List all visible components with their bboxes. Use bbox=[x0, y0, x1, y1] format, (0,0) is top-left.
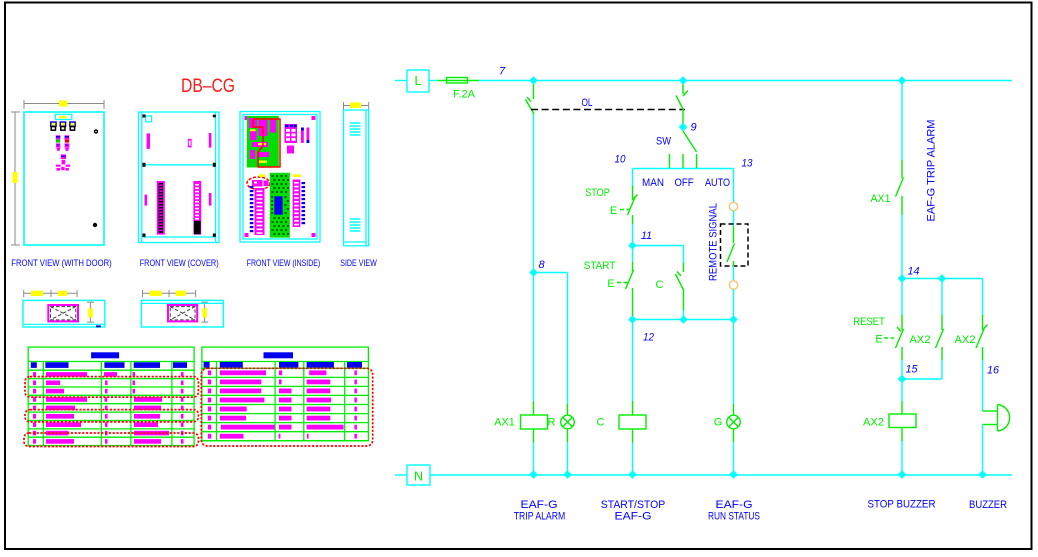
svg-text:9: 9 bbox=[690, 122, 696, 134]
svg-text:FRONT VIEW (INSIDE): FRONT VIEW (INSIDE) bbox=[247, 258, 321, 269]
svg-text:STOP BUZZER: STOP BUZZER bbox=[868, 499, 936, 511]
svg-text:FRONT VIEW (COVER): FRONT VIEW (COVER) bbox=[140, 258, 219, 269]
svg-text:EAF-G: EAF-G bbox=[521, 499, 558, 511]
svg-text:N: N bbox=[414, 470, 423, 484]
svg-text:12: 12 bbox=[643, 332, 654, 344]
svg-text:START/STOP: START/STOP bbox=[601, 499, 666, 511]
svg-text:E: E bbox=[610, 205, 617, 217]
svg-text:AX1: AX1 bbox=[871, 193, 891, 205]
svg-text:F.2A: F.2A bbox=[453, 89, 476, 101]
svg-text:AX2: AX2 bbox=[910, 334, 931, 346]
svg-text:EAF-G: EAF-G bbox=[716, 499, 753, 511]
svg-text:14: 14 bbox=[908, 266, 920, 278]
svg-text:EAF-G: EAF-G bbox=[615, 511, 652, 523]
svg-text:SW: SW bbox=[656, 136, 672, 148]
svg-text:MAN: MAN bbox=[642, 177, 664, 189]
svg-text:RUN STATUS: RUN STATUS bbox=[708, 511, 760, 523]
svg-text:STOP: STOP bbox=[585, 187, 610, 199]
svg-text:L: L bbox=[415, 74, 422, 88]
svg-text:E: E bbox=[875, 334, 882, 346]
svg-text:REMOTE SIGNAL: REMOTE SIGNAL bbox=[708, 203, 720, 281]
svg-text:AX1: AX1 bbox=[494, 417, 515, 429]
svg-text:13: 13 bbox=[742, 158, 754, 170]
svg-text:EAF-G TRIP ALARM: EAF-G TRIP ALARM bbox=[926, 120, 938, 222]
svg-text:11: 11 bbox=[641, 230, 652, 242]
svg-text:7: 7 bbox=[499, 66, 506, 78]
svg-text:RESET: RESET bbox=[853, 316, 885, 328]
svg-text:C: C bbox=[597, 417, 605, 429]
svg-text:FRONT VIEW (WITH DOOR): FRONT VIEW (WITH DOOR) bbox=[11, 258, 112, 269]
svg-text:10: 10 bbox=[615, 154, 627, 166]
svg-text:E: E bbox=[607, 278, 614, 290]
svg-text:R: R bbox=[548, 417, 556, 429]
svg-text:AUTO: AUTO bbox=[705, 177, 730, 189]
svg-text:C: C bbox=[656, 279, 664, 291]
svg-text:AX2: AX2 bbox=[863, 417, 884, 429]
svg-text:BUZZER: BUZZER bbox=[969, 499, 1007, 511]
svg-text:DB–CG: DB–CG bbox=[181, 76, 235, 97]
svg-text:G: G bbox=[714, 417, 723, 429]
svg-text:15: 15 bbox=[906, 364, 919, 376]
svg-text:TRIP ALARM: TRIP ALARM bbox=[514, 511, 566, 523]
svg-text:OL: OL bbox=[582, 97, 593, 109]
svg-text:OFF: OFF bbox=[675, 177, 694, 189]
svg-text:START: START bbox=[584, 260, 616, 272]
svg-text:16: 16 bbox=[987, 365, 1000, 377]
svg-text:8: 8 bbox=[538, 259, 545, 271]
svg-text:SIDE VIEW: SIDE VIEW bbox=[340, 258, 377, 269]
svg-text:AX2: AX2 bbox=[955, 334, 976, 346]
